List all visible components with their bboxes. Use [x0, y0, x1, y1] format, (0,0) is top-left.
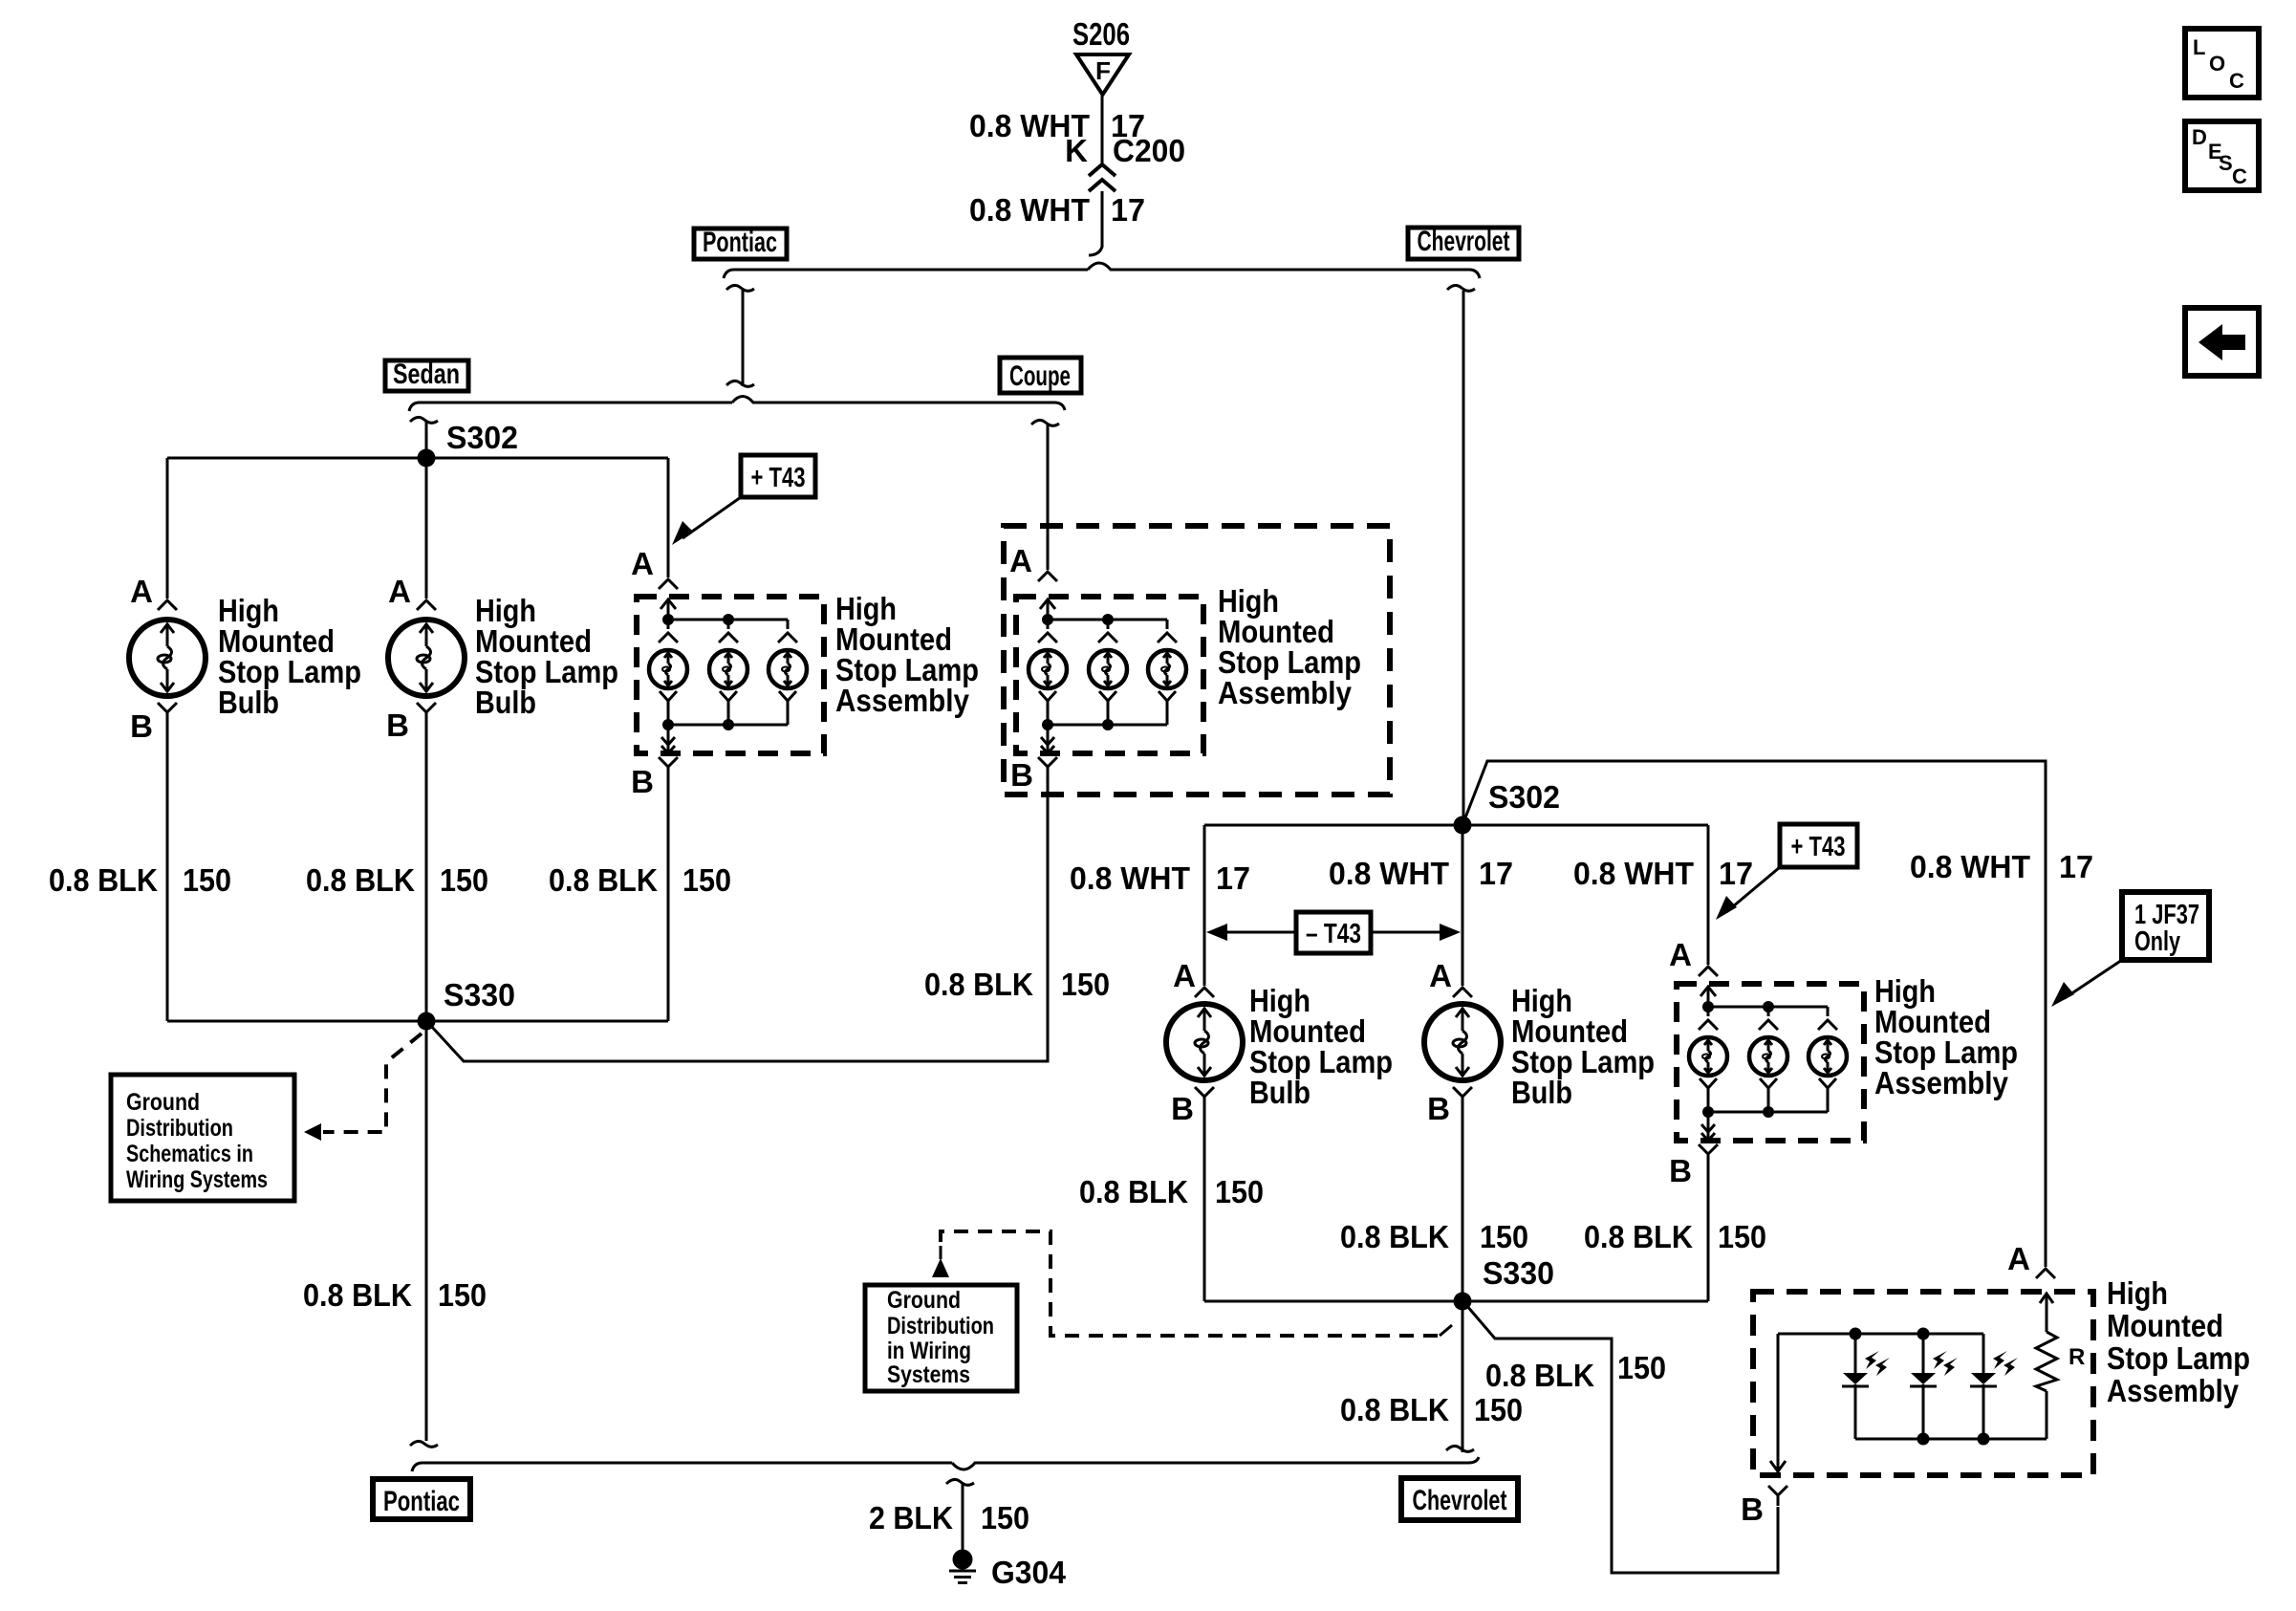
svg-text:17: 17	[1216, 860, 1250, 896]
label: High Mounted Stop Lamp Assembly (sedan)	[835, 591, 979, 718]
svg-text:G304: G304	[991, 1555, 1067, 1590]
label 0.8 WHT 17 (right assembly)	[1573, 856, 1753, 891]
terminal A right assembly	[1699, 967, 1718, 976]
svg-text:O: O	[2209, 52, 2225, 76]
svg-text:A: A	[1009, 543, 1032, 578]
note box: Ground Distribution Schematics in Wiring Systems	[111, 1075, 294, 1201]
label 0.8 BLK 150 (right bulb 2)	[1340, 1219, 1528, 1254]
svg-text:150: 150	[1718, 1219, 1766, 1254]
svg-text:150: 150	[1061, 967, 1110, 1002]
label 0.8 BLK 150 (bulb 1)	[49, 862, 231, 898]
LED stop lamp assembly dashed box	[1753, 1292, 2093, 1475]
wire: sedan assembly ground lead	[667, 778, 670, 1021]
LED 2	[1910, 1334, 1958, 1439]
wire: ground tap to G304	[946, 1479, 974, 1551]
svg-text:B: B	[1427, 1091, 1450, 1126]
wire: bottom ground bus Pontiac-Chevrolet	[412, 1457, 1479, 1471]
svg-text:Schematics in: Schematics in	[126, 1141, 253, 1167]
high mounted stop lamp bulb (right 2)	[1424, 1004, 1501, 1080]
wire: bulb 2 ground lead	[425, 723, 428, 1021]
label: High Mounted Stop Lamp Bulb (right 2)	[1511, 983, 1655, 1110]
label: High Mounted Stop Lamp Bulb 2	[475, 593, 618, 720]
wire from C200 to Pontiac/Chevrolet bus	[1089, 191, 1102, 255]
LED 1	[1842, 1334, 1890, 1439]
svg-text:150: 150	[438, 1277, 487, 1313]
terminal B right bulb 2	[1453, 1087, 1472, 1107]
terminal B bulb 1	[158, 703, 177, 723]
wire: S302 to JF37 feed (top run)	[1462, 761, 2046, 1267]
svg-text:0.8 BLK: 0.8 BLK	[306, 862, 415, 898]
callout + T43 (right)	[1716, 824, 1857, 920]
wire: LED top bus	[1778, 1333, 1983, 1336]
label 0.8 WHT 17 (lower)	[969, 192, 1145, 228]
svg-text:B: B	[631, 764, 654, 799]
svg-text:L: L	[2193, 35, 2205, 59]
terminal A sedan assembly	[659, 579, 678, 589]
label 0.8 BLK 150 (LED ground path)	[1485, 1350, 1666, 1393]
svg-text:S330: S330	[444, 977, 515, 1012]
svg-text:C: C	[2229, 69, 2244, 93]
high mounted stop lamp assembly (coupe)	[1016, 597, 1203, 778]
wire: Coupe bus drop to coupe assembly	[1031, 420, 1059, 570]
svg-text:A: A	[631, 546, 654, 581]
wire: S302 right bus	[1204, 824, 1708, 827]
svg-text:17: 17	[1479, 856, 1513, 891]
svg-text:Distribution: Distribution	[887, 1313, 994, 1339]
label: High Mounted Stop Lamp Bulb (right 1)	[1249, 983, 1393, 1110]
svg-text:0.8 BLK: 0.8 BLK	[1584, 1219, 1693, 1254]
icon box LOC	[2185, 29, 2259, 98]
Chevrolet label box (bottom)	[1401, 1478, 1518, 1520]
svg-text:Bulb: Bulb	[1249, 1075, 1310, 1110]
dashed leader to ground distribution note (left)	[304, 1034, 422, 1141]
callout 1 JF37 Only	[2051, 892, 2209, 1007]
label 0.8 BLK 150 (bulb 2)	[306, 862, 488, 898]
svg-text:0.8 BLK: 0.8 BLK	[1340, 1219, 1449, 1254]
svg-text:Chevrolet: Chevrolet	[1418, 226, 1510, 257]
label: High Mounted Stop Lamp Assembly (LED)	[2107, 1275, 2250, 1408]
wire: S330 ground bus (left)	[167, 1020, 668, 1023]
dashed leader to ground distribution note (center)	[932, 1231, 1452, 1336]
Coupe label box	[1000, 358, 1081, 393]
svg-text:Bulb: Bulb	[475, 685, 536, 720]
splice S206 triangle symbol	[1076, 54, 1129, 95]
wire: S330 to LED assembly ground path	[1466, 1305, 1778, 1573]
label 0.8 WHT 17 (right bulb 2)	[1329, 856, 1513, 891]
svg-text:B: B	[1741, 1491, 1764, 1527]
svg-text:150: 150	[1617, 1350, 1666, 1385]
ground G304 symbol	[949, 1550, 976, 1583]
svg-text:0.8 WHT: 0.8 WHT	[1910, 849, 2030, 884]
svg-text:Coupe: Coupe	[1009, 360, 1071, 392]
node S330 (right)	[1454, 1293, 1472, 1311]
LED 3	[1970, 1334, 2018, 1439]
icon box back arrow	[2185, 308, 2259, 376]
terminal B LED assembly	[1768, 1486, 1787, 1506]
terminal A LED assembly	[2036, 1269, 2055, 1278]
wire: right bulb 1 feed	[1203, 825, 1206, 986]
svg-text:Chevrolet: Chevrolet	[1413, 1485, 1507, 1516]
label: High Mounted Stop Lamp Bulb 1	[218, 593, 361, 720]
svg-text:0.8 BLK: 0.8 BLK	[303, 1277, 412, 1313]
svg-text:Assembly: Assembly	[2107, 1373, 2240, 1408]
Chevrolet label box (top)	[1408, 226, 1519, 259]
svg-text:A: A	[1669, 937, 1692, 972]
callout + T43 (sedan)	[672, 455, 815, 545]
svg-text:Distribution: Distribution	[126, 1115, 233, 1142]
label 0.8 WHT 17 (right bulb 1)	[1070, 860, 1250, 896]
wire: LED bottom bus	[1855, 1438, 2047, 1441]
svg-text:Pontiac: Pontiac	[383, 1486, 460, 1517]
node S302 (left)	[418, 449, 436, 468]
wire: Sedan bus drop to splice S302	[410, 417, 438, 458]
svg-text:150: 150	[440, 862, 488, 898]
label 0.8 BLK 150 (S330 down)	[303, 1277, 487, 1313]
svg-text:0.8 BLK: 0.8 BLK	[49, 862, 158, 898]
label 0.8 WHT 17 (upper)	[969, 108, 1145, 143]
svg-text:B: B	[1010, 757, 1033, 793]
wire: top distribution bus Pontiac-Chevrolet	[724, 263, 1480, 278]
svg-text:150: 150	[1474, 1392, 1523, 1427]
label 0.8 BLK 150 (right assembly)	[1584, 1219, 1766, 1254]
svg-text:B: B	[386, 708, 409, 743]
svg-text:Assembly: Assembly	[835, 683, 970, 718]
svg-text:K: K	[1065, 133, 1088, 168]
resistor R	[2036, 1332, 2057, 1391]
svg-text:150: 150	[981, 1500, 1029, 1535]
wire: bulb 2 feed	[425, 467, 428, 599]
high mounted stop lamp bulb 2	[388, 620, 465, 696]
terminal A right bulb 1	[1195, 988, 1214, 997]
svg-text:Pontiac: Pontiac	[703, 227, 777, 258]
svg-text:in Wiring: in Wiring	[887, 1338, 971, 1364]
svg-text:Ground: Ground	[887, 1287, 961, 1314]
wire: S330 to coupe assembly ground	[430, 778, 1048, 1061]
svg-text:S302: S302	[1488, 779, 1560, 815]
svg-text:Sedan: Sedan	[393, 359, 460, 390]
svg-text:0.8 BLK: 0.8 BLK	[1485, 1358, 1594, 1393]
node S330 (left)	[418, 1012, 436, 1031]
connector C200 pin K label	[1065, 133, 1185, 168]
wire: right assembly ground lead	[1707, 1165, 1710, 1301]
svg-text:A: A	[1429, 958, 1452, 993]
node S302 (right)	[1454, 816, 1472, 835]
label 0.8 BLK 150 (sedan assembly)	[549, 862, 731, 898]
wire: sedan assembly feed	[667, 458, 670, 577]
svg-text:+ T43: + T43	[751, 463, 806, 493]
entry arrow LED assembly	[2040, 1294, 2053, 1332]
label: High Mounted Stop Lamp Assembly (right)	[1874, 973, 2018, 1100]
svg-text:150: 150	[682, 862, 731, 898]
svg-text:150: 150	[1215, 1174, 1264, 1209]
svg-text:B: B	[130, 708, 153, 744]
svg-text:0.8 WHT: 0.8 WHT	[1070, 860, 1190, 896]
wire: Sedan-Coupe bus	[409, 397, 1065, 412]
svg-text:17: 17	[2059, 849, 2093, 884]
icon box DESC	[2185, 121, 2259, 190]
terminal A coupe assembly	[1038, 572, 1057, 581]
svg-text:0.8 BLK: 0.8 BLK	[549, 862, 658, 898]
svg-text:– T43: – T43	[1306, 919, 1361, 949]
wire: right bulb 2 ground lead	[1462, 1107, 1464, 1301]
svg-text:Bulb: Bulb	[218, 685, 279, 720]
svg-text:S206: S206	[1072, 16, 1130, 52]
high mounted stop lamp bulb (right 1)	[1166, 1004, 1243, 1080]
svg-text:Only: Only	[2134, 926, 2180, 957]
svg-text:B: B	[1669, 1153, 1692, 1188]
svg-text:B: B	[1171, 1091, 1194, 1126]
svg-text:A: A	[130, 574, 153, 609]
svg-text:Systems: Systems	[887, 1361, 970, 1388]
wire: Pontiac drop to Sedan/Coupe bus	[726, 285, 754, 386]
svg-text:2 BLK: 2 BLK	[869, 1500, 953, 1535]
Pontiac label box (top)	[694, 227, 787, 259]
wire: right assembly feed	[1707, 825, 1710, 965]
wire: S330 ground bus (right)	[1204, 1300, 1708, 1303]
svg-text:Wiring Systems: Wiring Systems	[126, 1166, 268, 1193]
svg-text:+ T43: + T43	[1791, 832, 1846, 862]
Pontiac label box (bottom)	[373, 1479, 470, 1519]
label 0.8 BLK 150 (coupe assembly)	[924, 967, 1110, 1002]
callout - T43 with span arrows	[1206, 912, 1461, 953]
label 0.8 WHT 17 (JF37 feed)	[1910, 849, 2093, 884]
wire: S330 down to Pontiac-Chevrolet ground bus	[425, 1030, 428, 1441]
wire: right bulb 1 ground lead	[1203, 1107, 1206, 1301]
curly: right S330 wire to bottom bus	[1446, 1446, 1474, 1451]
svg-text:0.8 WHT: 0.8 WHT	[1573, 856, 1694, 891]
wire: Chevrolet drop to splice S302 (right)	[1447, 285, 1475, 825]
high mounted stop lamp assembly (sedan)	[637, 597, 824, 778]
svg-text:Assembly: Assembly	[1218, 675, 1353, 710]
wire: LED assembly B exit	[1770, 1334, 1786, 1474]
svg-text:Bulb: Bulb	[1511, 1075, 1572, 1110]
svg-text:D: D	[2192, 125, 2207, 149]
svg-text:C200: C200	[1113, 133, 1185, 168]
svg-text:R: R	[2069, 1344, 2085, 1370]
terminal B right bulb 1	[1195, 1087, 1214, 1107]
in-line connector C200 symbol	[1089, 164, 1116, 191]
terminal A bulb 2	[417, 600, 436, 610]
svg-text:0.8 BLK: 0.8 BLK	[924, 967, 1033, 1002]
wire: bulb 1 feed	[166, 458, 169, 599]
svg-text:Stop Lamp: Stop Lamp	[2107, 1340, 2250, 1376]
label 2 BLK 150 (ground wire)	[869, 1500, 1029, 1535]
label 0.8 BLK 150 (S330 right down)	[1340, 1392, 1523, 1427]
svg-text:S302: S302	[446, 420, 518, 455]
svg-text:0.8 WHT: 0.8 WHT	[969, 192, 1090, 228]
svg-text:0.8 BLK: 0.8 BLK	[1340, 1392, 1449, 1427]
Sedan label box	[385, 359, 468, 391]
high mounted stop lamp assembly (right)	[1677, 984, 1864, 1165]
svg-text:17: 17	[1111, 192, 1145, 228]
terminal B bulb 2	[417, 703, 436, 723]
svg-text:C: C	[2232, 164, 2247, 188]
wire from S206 to connector C200	[1101, 95, 1104, 165]
svg-text:0.8 WHT: 0.8 WHT	[1329, 856, 1449, 891]
svg-text:S: S	[2219, 151, 2233, 175]
svg-text:Ground: Ground	[126, 1089, 200, 1116]
svg-text:150: 150	[183, 862, 231, 898]
svg-text:High: High	[2107, 1275, 2168, 1311]
wire: resistor to LED bus	[2046, 1391, 2048, 1439]
terminal A bulb 1	[158, 600, 177, 610]
coupe assembly outer dashed box	[1004, 526, 1390, 795]
svg-text:F: F	[1095, 56, 1111, 85]
label: High Mounted Stop Lamp Assembly (coupe)	[1218, 583, 1361, 710]
curly: S330 wire to bottom bus (left)	[410, 1441, 438, 1447]
wire: right bulb 2 feed	[1462, 834, 1464, 986]
wire: S330 down to Chevrolet ground bus	[1462, 1310, 1464, 1452]
svg-text:A: A	[1173, 958, 1196, 993]
svg-text:17: 17	[1719, 856, 1753, 891]
svg-text:150: 150	[1480, 1219, 1528, 1254]
terminal A right bulb 2	[1453, 988, 1472, 997]
svg-text:A: A	[388, 574, 411, 609]
svg-text:Assembly: Assembly	[1874, 1065, 2009, 1100]
high mounted stop lamp bulb 1	[129, 620, 206, 696]
svg-text:0.8 BLK: 0.8 BLK	[1079, 1174, 1188, 1209]
wire: bulb 1 ground lead	[166, 723, 169, 1021]
note box: Ground Distribution in Wiring Systems	[865, 1285, 1017, 1391]
svg-text:A: A	[2007, 1241, 2030, 1276]
label 0.8 BLK 150 (right bulb 1)	[1079, 1174, 1264, 1209]
wire: S302 distribution bus (left section)	[167, 457, 668, 460]
svg-text:Mounted: Mounted	[2107, 1308, 2223, 1343]
svg-text:S330: S330	[1483, 1255, 1554, 1291]
